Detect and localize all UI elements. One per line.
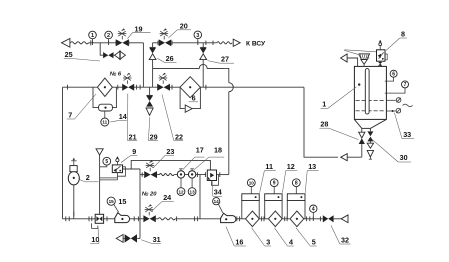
wire: bottom row filter3 to filter4 [259,218,268,220]
svg-text:6: 6 [392,72,395,78]
thin leader lines near funnel [344,50,360,54]
hose (wavy) after valve 24 [156,218,158,220]
gauge point 14 (circled 14) [213,198,220,205]
relief valve 8 on tank top [377,50,386,61]
svg-text:К ВСУ: К ВСУ [246,40,266,47]
svg-text:24: 24 [163,193,171,202]
wire: check valve 27 branch down to main row [202,63,204,87]
wire: vertical to valve 31 branch [139,169,141,238]
gauge point 13 (circled 13) [191,178,193,188]
svg-text:23: 23 [166,147,174,156]
flow indicator 34 [207,170,216,181]
svg-text:19: 19 [135,24,143,33]
drain coupling upper on tank right [386,99,395,101]
svg-text:15: 15 [109,199,115,204]
coupling half (open arrow) after valve 32 [341,215,348,223]
wire: left column [62,87,64,219]
wire: vertical from valve 19 down to main row [142,43,144,87]
svg-text:№ 20: № 20 [142,192,157,198]
filter 7 (diamond) No.6 [97,78,112,96]
wire: bottom row filter5 to valve 32 [304,218,317,220]
valve 24 (shut-off) with actuator [143,215,149,222]
svg-text:18: 18 [214,146,222,155]
gauge point 9 (circled 9) [273,187,275,194]
wire: main row between filter7 and valve 21 [112,86,122,88]
wire: main row valve21 to valve22 [134,86,157,88]
wire: regulator 9 double line to funnel column [100,177,118,179]
wire: branch down from row A to coupling 25 [100,43,103,55]
svg-text:6: 6 [192,93,196,102]
valve 31 branch [137,237,140,239]
svg-text:33: 33 [403,130,411,139]
wire: bottom row device10 to pump 15 [104,218,115,220]
valve 19 (shut-off) with actuator [115,41,117,45]
svg-text:№ 6: № 6 [110,71,122,77]
gauge point 4 (circled 4) [312,212,314,218]
svg-text:28: 28 [320,119,328,128]
wire: right vertical from link line down to sensor row (hops main row) [228,72,230,82]
hand pump 2 [68,172,79,185]
tank internal standpipe [365,69,369,114]
svg-text:27: 27 [221,55,229,64]
svg-text:22: 22 [175,133,183,142]
valve 22 (shut-off) with actuator [157,84,163,91]
svg-text:3: 3 [196,33,199,39]
svg-text:2: 2 [86,173,90,182]
svg-text:21: 21 [129,133,137,142]
svg-text:8: 8 [401,29,405,38]
pump 15 (ejector) [115,213,130,223]
filter 5 bypass box 13 [286,201,288,219]
svg-text:1: 1 [91,33,94,39]
hose (wavy) top-left [70,42,88,44]
pressure regulator 9 [112,165,122,173]
svg-text:15: 15 [118,197,126,206]
wire: bottom row pump15 to valve 24 [130,218,143,220]
wire: row A to vertical [129,42,144,44]
pressure transmitter 17 [180,169,182,171]
gauge point 5 (circled 5) [103,157,111,165]
gauge point 6 (circled 6) [390,70,397,77]
drain vent column 29 below main row [149,87,151,95]
valve 23 (shut-off) with actuator [144,171,150,178]
hose (wavy) to K VSU [217,42,232,44]
svg-text:12: 12 [287,162,295,171]
filler funnel on tank top [359,54,370,60]
funnel at drain column [96,149,103,155]
svg-text:12: 12 [178,189,184,194]
drain coupling lower on tank right [386,110,395,112]
wire: bottom row left section [63,218,96,220]
svg-text:14: 14 [214,199,220,204]
weld dot on tank for label 1 leader [358,83,360,85]
wire: funnel column down to device 10 [99,155,101,214]
suction flow arrow (open, pointing left) [341,154,347,161]
valve 21 (shut-off) with actuator [122,84,128,91]
gauge point 12 (circled 12) [180,178,182,188]
wire: bottom row filter4 to filter5 [282,218,290,220]
gauge point 3 (circled 3) [197,39,199,43]
wire: link line between check valves with hop over 27 branch [153,64,225,68]
wire: row B valve 20 to hose [172,42,217,44]
valve (coupling shut-off) of item 25 [103,52,108,58]
pressure transmitter 18 [191,169,193,171]
check valve 26 [152,43,154,48]
svg-text:25: 25 [65,50,73,59]
wire: row A [89,42,119,44]
svg-text:4: 4 [312,207,315,213]
hose stub (tilde) near drain coupling [403,104,413,107]
hose (wavy) sensor row [157,174,160,176]
svg-text:2: 2 [107,33,110,39]
valve 20 (shut-off) with actuator [159,39,165,46]
svg-text:31: 31 [153,235,161,244]
wire: riser from sensor row down to bottom row [199,175,201,219]
gauge point 11 (circled) under element 14 [104,111,106,118]
wire: main row left section [63,86,98,88]
wire: sensor row start [140,174,144,176]
svg-text:10: 10 [249,180,255,185]
coupling half (open arrow) K VSU [233,39,240,46]
svg-text:30: 30 [400,153,408,162]
coupling half (open arrow) at tank filler line [341,54,348,62]
svg-text:20: 20 [180,22,188,31]
wire: check valve 26 branch down to main row [152,68,154,87]
valve 32 (shut-off) [319,216,321,221]
svg-text:13: 13 [308,162,316,171]
solenoid valve 10 [95,214,103,223]
tank 1 body [354,66,386,119]
svg-text:29: 29 [150,133,158,142]
svg-text:14: 14 [119,112,127,121]
gauge point 15 (circled 15) [107,197,115,205]
svg-text:7: 7 [404,82,407,88]
gauge point 1 (circled 1) [92,39,94,43]
tank 1 cone bottom [354,119,361,128]
check valve 27 [202,43,204,48]
coupling half (open arrow) top-left [62,38,70,47]
wire: right vertical down to suction line [304,87,338,157]
svg-text:34: 34 [214,188,222,197]
gauge point 2 (circled 2) [108,39,110,43]
svg-text:1: 1 [322,100,326,109]
svg-text:9: 9 [132,147,136,156]
wire: pump 2 stem down to bottom row [73,185,75,219]
filter 6 (diamond) [180,77,200,98]
svg-text:9: 9 [273,181,276,187]
relief valve 8 bypass loop [385,54,387,60]
svg-text:17: 17 [196,146,204,155]
svg-text:8: 8 [295,181,298,187]
svg-text:3: 3 [266,238,270,247]
tank drain left column with valve 28 [361,128,363,132]
svg-text:11: 11 [102,120,107,125]
gauge point 10 (circled 10) [250,187,252,194]
svg-text:13: 13 [190,189,196,194]
svg-text:11: 11 [265,162,273,171]
wire: sensor row to right vertical [217,174,229,176]
pump 16 (electric) [221,213,236,222]
flow indicator 34 bypass loop [212,175,219,186]
wire: row B from corner to valve 20 [153,42,159,44]
filter 5 (diamond) [290,211,304,227]
filter 4 (diamond) [268,211,282,227]
wire: main row valve22 to filter 6 [170,86,180,88]
filter 4 bypass box 12 [264,201,266,219]
svg-text:26: 26 [166,54,174,63]
wire: bottom row hose to pump 16 [175,218,220,220]
coupling halves after valve 25 [115,51,121,59]
wire: main row filter6 to right corner [200,86,304,88]
svg-text:4: 4 [289,238,293,247]
svg-text:7: 7 [68,111,72,120]
svg-text:32: 32 [341,235,349,244]
wire: sensor row to transmitters [174,174,206,176]
svg-text:5: 5 [312,238,316,247]
svg-text:16: 16 [235,238,243,247]
regulator 9 bypass loop [117,167,125,176]
svg-text:5: 5 [105,159,108,165]
filter 3 (diamond) [246,211,260,227]
tank level dashes [356,100,360,102]
tank drain right column 30 [369,128,371,131]
svg-text:10: 10 [91,235,99,244]
gauge point 7 (circled 7) [402,81,409,88]
relief valve 8 bottom connection [379,61,381,66]
filter 3 bypass box 11 [241,201,243,219]
filter 7 bypass loop with element 14 [93,87,99,107]
filter 6 bypass loop with check valve [180,87,185,108]
gauge point 8 (circled 8) [295,187,297,194]
wire: regulator 9 output right and control line to indicator 34 [123,168,141,170]
wire: bottom row pump16 to filter 3 [236,218,246,220]
